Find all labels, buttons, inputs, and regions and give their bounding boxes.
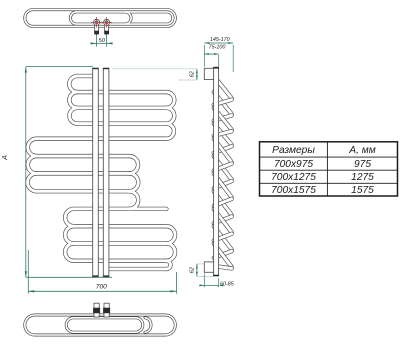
svg-text:62: 62 <box>190 266 196 273</box>
dim A arrows <box>25 67 27 73</box>
top view: left valve red centerlines <box>91 21 102 23</box>
top view: right valve <box>103 19 110 26</box>
svg-text:700: 700 <box>96 284 107 291</box>
svg-text:1275: 1275 <box>351 172 374 183</box>
top view: upper coil ring <box>70 12 173 24</box>
dim 62 bottom arrows <box>196 264 198 269</box>
side view front long diagonal <box>214 173 232 197</box>
bottom section right bend g3-g4 <box>166 244 175 261</box>
side view back return diagonal <box>214 181 232 188</box>
side view front return diagonal <box>214 131 232 136</box>
side view back long diagonal <box>214 92 232 114</box>
tube T3 <box>37 171 130 175</box>
tube g1 <box>74 207 167 211</box>
size table frame <box>260 142 398 196</box>
side view: bar top cap <box>213 67 219 69</box>
side view front return diagonal <box>214 199 232 206</box>
dimension 50: extension lines <box>96 28 98 47</box>
bottom section left bend g3-g4 <box>65 244 74 261</box>
side view back return diagonal <box>214 217 232 224</box>
side view back return diagonal <box>214 146 232 153</box>
tube g2 <box>74 224 167 228</box>
tube g3 <box>74 241 167 245</box>
dimension 62 bottom <box>197 263 204 265</box>
svg-text:700х1275: 700х1275 <box>271 172 316 183</box>
side view back return diagonal <box>214 115 232 120</box>
tube f3 <box>77 121 166 125</box>
svg-text:50: 50 <box>98 38 105 44</box>
svg-text:60-85: 60-85 <box>220 282 235 288</box>
svg-text:700х1575: 700х1575 <box>271 185 316 196</box>
side view: bottom connection stub <box>204 262 213 272</box>
bottom section right bend g2-g3 <box>166 226 175 243</box>
svg-text:975: 975 <box>354 159 371 170</box>
tube f1 <box>77 90 166 94</box>
dim 60-85 arrows <box>200 284 205 286</box>
top view: right connection stub <box>105 25 109 31</box>
dim 50 right arrow <box>107 42 113 44</box>
bottom view: right connection pipe <box>104 303 109 317</box>
top view: right union nut <box>104 31 109 35</box>
svg-text:А, мм: А, мм <box>348 145 375 156</box>
tube runb (from right riser) <box>106 267 166 271</box>
left riser top cap <box>92 68 98 69</box>
bottom view: right union nut <box>103 308 110 314</box>
top view: left union nut <box>94 31 99 35</box>
tube T1 (top-to-middle) <box>37 137 167 141</box>
svg-text:145-170: 145-170 <box>210 37 230 43</box>
bottom view: outer tube footprint <box>25 315 176 335</box>
tube g4 <box>74 259 167 263</box>
middle section right bend T2-T3 <box>129 156 138 173</box>
dim 75-100 arrows <box>204 53 209 55</box>
bottom view: left connection pipe <box>94 303 99 317</box>
side view back long diagonal <box>214 124 232 145</box>
left riser bottom cap <box>92 275 98 276</box>
side view back return diagonal <box>214 251 232 258</box>
svg-text:А: А <box>0 155 9 161</box>
bottom view: middle coil ring end arc <box>145 318 151 332</box>
bottom view: lower coil ring <box>66 318 143 332</box>
middle section right bend T3-T4 <box>129 173 138 191</box>
dimension 145-170 <box>203 45 205 67</box>
svg-text:62: 62 <box>190 70 196 77</box>
top view: left valve <box>93 19 100 26</box>
middle section right bend T4-g1 <box>129 191 138 209</box>
side view back long diagonal <box>214 191 232 215</box>
side view back long diagonal <box>214 156 232 179</box>
top view: outer tube footprint (700 mm) <box>25 10 176 27</box>
svg-text:1575: 1575 <box>351 185 374 196</box>
table row separators <box>260 156 398 158</box>
top section right bend f1-f2 <box>166 92 174 108</box>
top section left bend run1-f1 <box>69 76 77 92</box>
side view front return diagonal <box>214 100 232 105</box>
bottom section left bend g1-g2 <box>65 209 74 226</box>
side view back long diagonal <box>214 226 232 249</box>
dimension A <box>26 66 93 68</box>
side view: top connection stub <box>204 68 213 79</box>
front view: right riser <box>103 68 109 276</box>
top section right bend f2-f3 <box>166 108 174 124</box>
middle section left bend T2-T3 <box>28 156 37 173</box>
svg-text:700х975: 700х975 <box>274 159 313 170</box>
side view front return diagonal <box>214 164 232 171</box>
front view: left riser <box>93 68 99 276</box>
right riser top cap <box>103 68 109 69</box>
side view front long diagonal <box>214 76 232 98</box>
bottom section right bend g4-runb <box>166 261 170 269</box>
svg-text:Размеры: Размеры <box>272 145 315 156</box>
top section left bend f1-f2 <box>69 92 77 108</box>
side view front return diagonal <box>214 234 232 241</box>
tube T4 <box>37 189 130 193</box>
side view front return diagonal <box>214 266 232 268</box>
bottom section left bend g2-g3 <box>65 226 74 243</box>
dim 700 arrows <box>28 290 34 292</box>
dim 62 top arrows <box>196 69 198 74</box>
side view front long diagonal <box>214 139 232 162</box>
top view: right valve red centerlines <box>101 21 112 23</box>
side view front long diagonal <box>214 209 232 232</box>
dim 145-170 arrows <box>204 42 209 44</box>
dimension 62 top <box>112 68 197 70</box>
middle section left bend T1-T2 <box>28 139 37 156</box>
dimension 60-85 <box>203 274 205 288</box>
side view: bar bottom cap <box>213 275 219 277</box>
middle section left bend T3-T4 <box>28 173 37 191</box>
side view front long diagonal <box>214 244 232 267</box>
right riser bottom cap <box>103 275 109 276</box>
dimension 75-100 <box>204 53 218 55</box>
side view: wall-side collector bar <box>214 67 219 276</box>
top view: left connection stub <box>95 25 99 31</box>
table column divider <box>326 142 328 196</box>
svg-text:75-100: 75-100 <box>209 44 226 50</box>
dimension 700 <box>27 250 29 294</box>
top view: middle coil ring end arc <box>125 12 131 24</box>
tube T2 <box>37 154 130 158</box>
dimension 50: line and arrows <box>91 42 112 44</box>
tube f2 <box>77 106 166 110</box>
side view front long diagonal <box>214 108 232 130</box>
bottom view: left union nut <box>93 308 100 314</box>
top section left bend f2-f3 <box>69 108 77 124</box>
dim 50 left arrow <box>91 42 97 44</box>
tube run1 (to left riser) <box>77 74 94 78</box>
top section right bend f3-T1 <box>166 124 174 139</box>
